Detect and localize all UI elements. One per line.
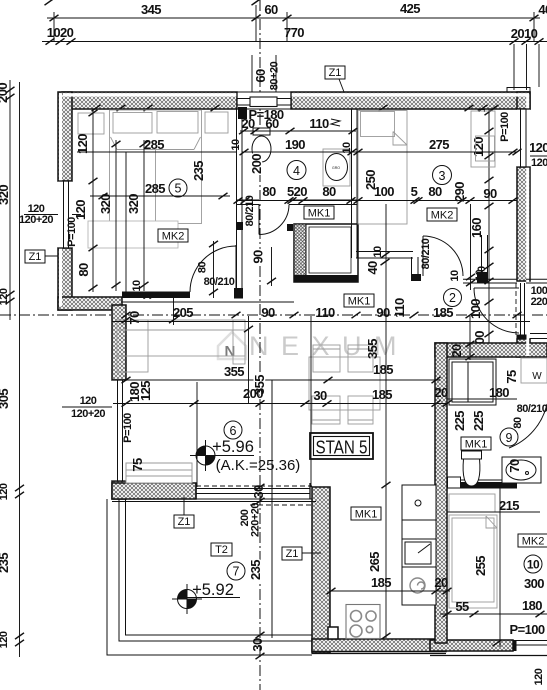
svg-text:120: 120: [0, 631, 10, 648]
svg-text:GRO: GRO: [332, 166, 340, 170]
svg-text:120: 120: [75, 134, 90, 154]
dim living: [113, 316, 452, 487]
svg-text:190: 190: [285, 137, 305, 152]
svg-text:7: 7: [233, 565, 240, 579]
svg-text:10: 10: [474, 270, 486, 282]
svg-text:90: 90: [376, 305, 390, 320]
label MK1 room9: [461, 437, 491, 451]
svg-text:55: 55: [455, 599, 469, 614]
left wall lower: [58, 248, 72, 310]
svg-text:355: 355: [365, 339, 380, 359]
svg-text:MK2: MK2: [431, 210, 454, 222]
svg-text:200: 200: [243, 386, 263, 401]
bottom-left wall strip: [112, 483, 196, 499]
right wall lower stub: [517, 339, 530, 357]
svg-text:250: 250: [363, 170, 378, 190]
left wall vertical 2: [112, 305, 126, 380]
svg-text:20: 20: [449, 344, 464, 358]
left wall upper: [58, 92, 72, 181]
svg-text:120+20: 120+20: [19, 214, 53, 226]
svg-text:MK1: MK1: [355, 509, 378, 521]
svg-text:90: 90: [251, 250, 266, 264]
block 9/10 bottom wall: [430, 640, 513, 651]
svg-text:120: 120: [0, 288, 10, 305]
room circle 2: [444, 289, 462, 307]
svg-text:90: 90: [261, 305, 275, 320]
dim room4 top: [239, 107, 358, 134]
svg-text:320: 320: [126, 194, 141, 214]
top wall ticks: [92, 105, 499, 111]
svg-text:80: 80: [76, 263, 91, 277]
svg-text:75: 75: [504, 370, 519, 384]
svg-text:215: 215: [499, 498, 519, 513]
svg-text:10: 10: [449, 270, 461, 282]
top wall right segment: [291, 92, 530, 109]
top dimension line 1: [45, 0, 547, 21]
svg-text:5: 5: [175, 182, 182, 196]
room9 toilet: [462, 451, 482, 486]
svg-text:120: 120: [0, 483, 10, 500]
room circle 4: [287, 161, 306, 180]
dim room4/3 mid: [230, 137, 522, 174]
block 9/10 top wall: [435, 343, 547, 357]
svg-text:20: 20: [434, 575, 448, 590]
svg-text:P=100: P=100: [510, 622, 545, 637]
svg-text:160: 160: [469, 218, 484, 238]
svg-text:80/210: 80/210: [204, 276, 235, 288]
svg-text:120+20: 120+20: [71, 408, 105, 420]
kitchen-terrace wall: [312, 487, 330, 653]
svg-text:MK2: MK2: [162, 231, 185, 243]
svg-text:MK2: MK2: [522, 536, 545, 548]
niche walls (entrance): [356, 235, 517, 283]
svg-text:10: 10: [372, 246, 384, 258]
label MK2 room3: [427, 208, 457, 222]
shaft: [294, 224, 358, 282]
svg-text:125: 125: [138, 381, 153, 401]
svg-text:80/210: 80/210: [420, 238, 432, 269]
room circle 5: [169, 179, 187, 197]
svg-text:110: 110: [315, 305, 335, 320]
svg-text:110: 110: [392, 298, 407, 318]
top-right corner outer step: [507, 88, 530, 93]
window Z1 top (80+20): [237, 55, 291, 109]
dim hall axis labels: [122, 298, 522, 325]
svg-text:80/210: 80/210: [517, 403, 547, 415]
room5 wardrobe MK2: [88, 221, 178, 248]
wall plaster insets: [63, 93, 529, 96]
right wall top corner: [517, 92, 530, 109]
kitchen bottom wall: [312, 639, 446, 652]
svg-text:255: 255: [473, 556, 488, 576]
window left lower P=100: [112, 380, 134, 481]
svg-text:300: 300: [524, 576, 544, 591]
svg-text:10: 10: [341, 142, 353, 154]
room3 bed: [358, 111, 407, 225]
terrace outline: [107, 499, 312, 655]
svg-text:3: 3: [439, 169, 446, 183]
label Z1 top: [325, 66, 345, 92]
slab edge line: [271, 380, 273, 638]
window living-terrace: [112, 483, 316, 502]
room10 desk: [449, 494, 495, 512]
wall C below room4: [237, 200, 358, 231]
svg-text:225: 225: [471, 411, 486, 431]
label MK1 hall: [344, 294, 374, 308]
svg-text:355: 355: [224, 364, 244, 379]
right wall middle: [517, 167, 530, 281]
svg-text:30: 30: [313, 388, 327, 403]
room circle 10: [524, 555, 542, 573]
svg-text:285: 285: [144, 137, 164, 152]
svg-text:40: 40: [365, 261, 380, 275]
svg-text:T2: T2: [215, 544, 228, 556]
door room9 80/210: [509, 403, 547, 448]
top dimension line 2: [42, 25, 547, 90]
room3 wardrobe: [471, 111, 495, 167]
room circle 7: [227, 562, 245, 580]
label MK2 room10: [518, 534, 547, 548]
dim room4/3 bottom: [234, 170, 518, 204]
watermark logo: [218, 332, 246, 360]
dining table: [309, 345, 380, 424]
svg-text:(A.K.=25.36): (A.K.=25.36): [216, 457, 301, 474]
svg-text:80: 80: [197, 262, 209, 274]
wall D below room5: [122, 288, 243, 299]
left dimension line: [0, 80, 24, 657]
block 9/10 left wall: [435, 343, 447, 643]
svg-text:75: 75: [130, 458, 145, 472]
room5 nightstands: [78, 112, 228, 134]
svg-text:Z1: Z1: [29, 251, 42, 263]
label Z1 left: [25, 250, 64, 263]
svg-text:320: 320: [0, 185, 11, 205]
label Z1 terrace right: [282, 547, 321, 560]
svg-text:275: 275: [429, 137, 449, 152]
label 120/120+20 lower window: [62, 395, 112, 420]
svg-text:Z1: Z1: [178, 516, 191, 528]
svg-text:10: 10: [230, 139, 242, 151]
window right P=100: [499, 109, 530, 167]
svg-text:40: 40: [538, 2, 547, 17]
label MK1 room4: [304, 206, 334, 220]
dim room5: [73, 109, 236, 292]
svg-text:220+20: 220+20: [250, 503, 262, 537]
kitchen corner pillar notch: [328, 627, 338, 639]
svg-text:MK1: MK1: [465, 439, 488, 451]
room9 washing machine: [521, 358, 547, 383]
radiator squiggle: [331, 119, 340, 126]
label MK1 kitchen: [351, 507, 381, 521]
room circle 3: [433, 166, 452, 185]
svg-text:120: 120: [533, 668, 545, 685]
svg-text:120: 120: [73, 200, 88, 220]
dim line under axis right: [112, 321, 530, 323]
svg-text:60: 60: [264, 2, 278, 17]
svg-text:235: 235: [0, 553, 11, 573]
svg-text:STAN 5: STAN 5: [316, 438, 368, 458]
svg-text:10: 10: [131, 280, 143, 292]
svg-text:185: 185: [433, 305, 453, 320]
ext line entry: [470, 204, 472, 290]
elevation +5.96: [190, 438, 300, 474]
svg-text:225: 225: [452, 411, 467, 431]
svg-text:4: 4: [293, 164, 300, 178]
label T2: [211, 543, 232, 556]
svg-text:MK1: MK1: [308, 208, 331, 220]
svg-text:5: 5: [411, 184, 418, 199]
svg-text:185: 185: [372, 387, 392, 402]
top wall left segment: [62, 92, 237, 109]
terrace dims: [239, 484, 266, 659]
svg-text:10: 10: [527, 558, 540, 572]
kitchen counter: [402, 485, 436, 605]
room4 washbasin: [323, 149, 350, 186]
axis horizontal (dash-dot): [0, 314, 547, 316]
svg-text:180: 180: [489, 385, 509, 400]
svg-text:235: 235: [191, 161, 206, 181]
svg-text:80: 80: [262, 184, 276, 199]
window left upper P=100: [58, 181, 78, 248]
kitchen stove: [346, 605, 380, 639]
ext line sofa: [248, 316, 250, 403]
svg-text:425: 425: [400, 1, 420, 16]
svg-text:200: 200: [0, 83, 10, 103]
room circle 9: [500, 428, 518, 446]
STAN 5 box: [310, 433, 373, 459]
top dim connectors: [54, 5, 534, 41]
svg-text:110: 110: [309, 116, 329, 131]
axis vertical (dash-dot): [259, 0, 261, 690]
svg-text:6: 6: [230, 424, 237, 438]
svg-text:1020: 1020: [47, 25, 74, 40]
svg-text:MK1: MK1: [348, 296, 371, 308]
svg-text:30: 30: [250, 638, 265, 652]
room5 bed: [110, 110, 202, 224]
svg-text:30: 30: [251, 485, 266, 499]
svg-text:185: 185: [373, 362, 393, 377]
door room3 80/210: [420, 236, 463, 276]
svg-text:NEXUM: NEXUM: [249, 331, 409, 361]
svg-text:180: 180: [522, 598, 542, 613]
svg-text:200: 200: [249, 154, 264, 174]
svg-text:P=100: P=100: [499, 112, 511, 142]
svg-text:+5.96: +5.96: [212, 438, 254, 456]
svg-text:770: 770: [284, 25, 304, 40]
living room sofa: [117, 320, 245, 372]
svg-text:W: W: [532, 371, 542, 382]
window bottom right P=100: [510, 622, 547, 651]
svg-text:P=100: P=100: [66, 217, 78, 247]
room9 shower: [449, 359, 496, 405]
svg-text:305: 305: [0, 389, 11, 409]
svg-text:185: 185: [371, 575, 391, 590]
svg-text:345: 345: [141, 2, 161, 17]
svg-text:60: 60: [253, 69, 268, 83]
left wall corner strip: [58, 297, 122, 310]
room4 toilet: [252, 128, 271, 162]
svg-text:2: 2: [449, 291, 456, 305]
elevation +5.92: [172, 581, 240, 614]
svg-text:120: 120: [80, 395, 97, 407]
svg-text:+5.92: +5.92: [192, 581, 234, 599]
svg-text:90: 90: [483, 186, 497, 201]
svg-text:220: 220: [531, 296, 547, 308]
dim kitchen: [327, 204, 452, 639]
svg-text:80+20: 80+20: [269, 61, 281, 90]
svg-text:80: 80: [428, 184, 442, 199]
svg-text:P=180: P=180: [249, 107, 284, 122]
room10 bed: [449, 515, 497, 608]
divider rooms 9/10: [447, 477, 517, 489]
right dimension line: [468, 95, 494, 355]
svg-text:P=100: P=100: [122, 413, 134, 443]
svg-text:120+20: 120+20: [531, 157, 547, 169]
svg-text:285: 285: [145, 181, 165, 196]
svg-text:120: 120: [529, 140, 547, 155]
wall A room5/room4: [236, 107, 247, 292]
svg-text:Z1: Z1: [286, 548, 299, 560]
svg-text:120: 120: [471, 137, 486, 157]
door right wall (stairwell): [449, 270, 547, 340]
window bench living: [126, 463, 192, 483]
svg-text:20: 20: [434, 385, 448, 400]
svg-text:70: 70: [507, 459, 522, 473]
dim block 9/10: [440, 316, 547, 647]
svg-text:80: 80: [512, 417, 524, 429]
svg-text:N: N: [225, 343, 236, 360]
room circle 6: [224, 421, 242, 439]
svg-text:80: 80: [322, 184, 336, 199]
label Z1 terrace left: [174, 497, 194, 528]
door room4 80/210: [244, 195, 289, 234]
svg-text:265: 265: [367, 552, 382, 572]
label MK2 room5: [158, 229, 188, 243]
left wall corner 3: [112, 481, 126, 499]
svg-text:320: 320: [98, 194, 113, 214]
svg-text:Z1: Z1: [329, 67, 342, 79]
svg-text:520: 520: [287, 184, 307, 199]
svg-text:290: 290: [452, 182, 467, 202]
dim niche: [365, 246, 390, 275]
svg-text:2010: 2010: [511, 26, 538, 41]
room9 sink: [502, 457, 541, 483]
svg-text:9: 9: [506, 431, 513, 445]
svg-text:235: 235: [248, 560, 263, 580]
left window label 120/120+20: [19, 203, 81, 226]
wall B room4/room3: [352, 109, 358, 258]
door room5 80/210: [190, 241, 236, 298]
